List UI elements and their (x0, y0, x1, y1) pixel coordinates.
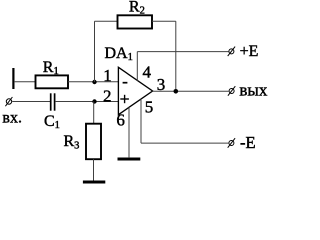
terminal (output) (228, 81, 268, 100)
svg-text:-E: -E (240, 133, 256, 152)
svg-text:+E: +E (240, 43, 259, 60)
wire (+E rail) (137, 51, 228, 53)
svg-text:5: 5 (145, 98, 154, 117)
wire (to R2 left) (95, 20, 118, 22)
svg-text:4: 4 (143, 62, 152, 81)
terminal (+E) (228, 43, 259, 60)
wire (pin 4 vertical) (136, 52, 138, 81)
svg-text:вх.: вх. (2, 109, 22, 126)
wire (-E rail) (141, 142, 228, 144)
node (output junction) (174, 89, 179, 94)
ground (pin 6) (118, 158, 141, 161)
wire (C1 to pin 2) (55, 101, 118, 103)
svg-text:1: 1 (103, 66, 112, 85)
resistor R2 (118, 0, 153, 29)
wire (bar to R1) (14, 81, 36, 83)
svg-text:2: 2 (103, 86, 112, 105)
wire (R2 right) (152, 20, 176, 22)
wire (feedback right vertical to output node) (175, 21, 177, 91)
svg-text:вых: вых (239, 81, 267, 100)
wire (R1 to pin 1) (68, 81, 118, 83)
node (inverting input junction) (92, 80, 96, 84)
ground (under R3) (83, 181, 105, 184)
wire (input to C1) (12, 101, 50, 103)
terminal (input) (5, 97, 12, 106)
node (non-inverting input junction) (92, 99, 96, 103)
resistor R1 (36, 59, 69, 89)
wire (pin 6 vertical) (128, 107, 130, 157)
resistor R3 (64, 124, 102, 160)
wire (pin 5 vertical) (140, 99, 142, 143)
wire (node to R3) (93, 102, 95, 124)
capacitor C1 (44, 93, 60, 131)
op-amp DA1 (105, 45, 153, 115)
ground (left input common bar) (12, 68, 14, 89)
wire (output) (153, 90, 229, 92)
svg-text:6: 6 (116, 110, 125, 129)
wire (R3 to ground) (93, 159, 95, 180)
wire (feedback left vertical) (94, 21, 96, 82)
terminal (-E) (228, 133, 256, 152)
